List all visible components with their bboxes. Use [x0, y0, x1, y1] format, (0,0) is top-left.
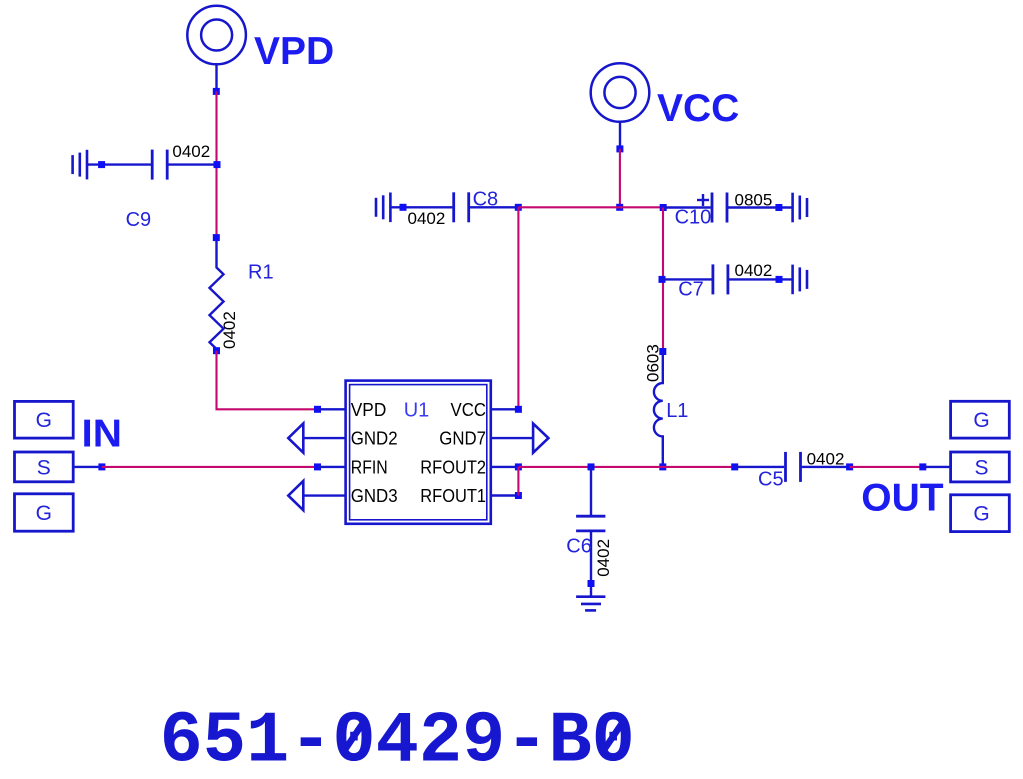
- junction: [846, 463, 853, 470]
- junction (R1 bottom): [213, 347, 220, 354]
- junction: [515, 406, 522, 413]
- svg-text:G: G: [36, 502, 52, 525]
- wire IN net: [102, 466, 318, 468]
- pin stub RFOUT1: [491, 494, 519, 496]
- svg-text:651-0429-B0: 651-0429-B0: [160, 701, 635, 779]
- wire VPD net vertical: [215, 91, 217, 237]
- ground (C9): [73, 150, 87, 180]
- capacitor C9: [152, 150, 167, 180]
- capacitor C10: [712, 193, 727, 223]
- junction: [515, 492, 522, 499]
- wire C5 right: [801, 466, 850, 468]
- ground (C6, earth style): [576, 597, 605, 611]
- svg-text:C9: C9: [126, 209, 152, 231]
- polarity + (C10): [697, 194, 709, 206]
- slash in zero 1: [342, 720, 365, 754]
- pin stub VCC: [491, 408, 519, 410]
- capacitor C8: [454, 192, 469, 222]
- junction: [616, 204, 623, 211]
- wire C6 to ground: [590, 531, 592, 597]
- junction: [616, 145, 623, 152]
- wire to RFIN pin: [318, 466, 346, 468]
- wire to C7: [662, 278, 712, 280]
- svg-text:0402: 0402: [172, 142, 210, 161]
- power symbol VPD: [187, 6, 246, 65]
- junction: [314, 463, 321, 470]
- svg-text:G: G: [973, 409, 989, 432]
- pin stub RFOUT2: [491, 466, 519, 468]
- svg-text:VPD: VPD: [254, 30, 334, 73]
- svg-text:C10: C10: [675, 207, 712, 229]
- svg-text:G: G: [973, 503, 989, 526]
- junction (C5 left): [731, 463, 738, 470]
- svg-text:GND7: GND7: [439, 429, 486, 449]
- svg-text:C8: C8: [473, 189, 499, 211]
- svg-text:0402: 0402: [408, 209, 446, 228]
- pin stub GND7 + arrow right: [491, 437, 533, 439]
- wire C8 to bus: [470, 206, 518, 208]
- wire C7 to ground: [728, 278, 793, 280]
- junction: [98, 161, 105, 168]
- wire S box to junction: [73, 466, 102, 468]
- svg-text:0603: 0603: [644, 344, 663, 382]
- svg-text:0402: 0402: [220, 311, 239, 349]
- svg-text:U1: U1: [404, 400, 430, 422]
- wire ground to C9: [87, 163, 151, 165]
- svg-text:VCC: VCC: [657, 87, 739, 130]
- junction: [515, 204, 522, 211]
- svg-text:0402: 0402: [594, 539, 613, 577]
- svg-text:RFIN: RFIN: [351, 457, 388, 477]
- junction (C10): [660, 204, 667, 211]
- port IN: box G: [15, 401, 74, 531]
- svg-text:VCC: VCC: [451, 400, 487, 420]
- svg-text:GND2: GND2: [351, 429, 398, 449]
- junction: [588, 580, 595, 587]
- port OUT: boxes: [951, 401, 1010, 531]
- svg-text:GND3: GND3: [351, 486, 398, 506]
- power symbol VCC: [591, 63, 650, 122]
- svg-text:0805: 0805: [735, 191, 773, 210]
- svg-text:S: S: [974, 457, 988, 480]
- ground (C8): [376, 193, 390, 223]
- wire C10 to ground: [727, 206, 793, 208]
- svg-text:RFOUT2: RFOUT2: [420, 457, 486, 477]
- wire VCC down to bus: [619, 149, 621, 207]
- svg-text:L1: L1: [666, 400, 688, 422]
- junction (C7): [659, 276, 666, 283]
- junction (L1 bottom): [659, 463, 666, 470]
- svg-text:G: G: [36, 409, 52, 432]
- svg-text:C7: C7: [678, 279, 704, 301]
- svg-text:0402: 0402: [807, 450, 845, 469]
- IC U1: [346, 381, 491, 524]
- pin stub GND3 + arrow: [303, 494, 345, 496]
- wire RF output bus: [518, 466, 734, 468]
- junction: [919, 463, 926, 470]
- svg-text:VPD: VPD: [351, 400, 387, 420]
- svg-text:0402: 0402: [735, 261, 773, 280]
- wire down to C6: [590, 467, 592, 516]
- ground (C7): [793, 265, 807, 295]
- junction: [98, 463, 105, 470]
- junction: [515, 463, 522, 470]
- resistor R1: [210, 241, 224, 349]
- capacitor C6 (vertical): [576, 516, 605, 531]
- junction: [314, 406, 321, 413]
- svg-text:R1: R1: [248, 262, 274, 284]
- wire RFOUT1 up to RFOUT2: [517, 467, 519, 496]
- wire to U1 VPD pin: [318, 408, 346, 410]
- svg-text:S: S: [37, 457, 51, 480]
- junction (L1 top): [659, 348, 666, 355]
- wire C8 node down to U1 VCC pin: [517, 207, 519, 409]
- wire VPD symbol to junction: [215, 64, 217, 91]
- wire C9 to VPD net: [167, 163, 216, 165]
- junction: [213, 88, 220, 95]
- capacitor C7: [713, 264, 728, 294]
- svg-text:C6: C6: [566, 536, 592, 558]
- svg-text:C5: C5: [758, 469, 784, 491]
- svg-text:RFOUT1: RFOUT1: [420, 486, 486, 506]
- slash in zero 2: [601, 720, 624, 754]
- wire VCC net down to L1: [662, 208, 664, 352]
- junction: [400, 204, 407, 211]
- capacitor C5: [786, 452, 801, 482]
- svg-text:OUT: OUT: [861, 477, 944, 520]
- inductor L1: [654, 352, 663, 467]
- svg-text:IN: IN: [82, 413, 123, 456]
- wire VCC bus: [518, 206, 663, 208]
- wire ground to C8: [390, 206, 452, 208]
- wire VCC symbol down: [619, 122, 621, 149]
- junction (R1 top): [213, 234, 220, 241]
- wire to C10: [663, 206, 711, 208]
- wire R1 to VPD pin: [217, 351, 318, 410]
- wire OUT net: [850, 466, 923, 468]
- pin stub GND2 + arrow: [303, 437, 345, 439]
- ground (C10): [793, 193, 807, 223]
- wire to S box: [923, 466, 951, 468]
- junction: [776, 276, 783, 283]
- wire to C5: [735, 466, 784, 468]
- junction: [214, 161, 221, 168]
- junction: [775, 204, 782, 211]
- junction (C6): [588, 463, 595, 470]
